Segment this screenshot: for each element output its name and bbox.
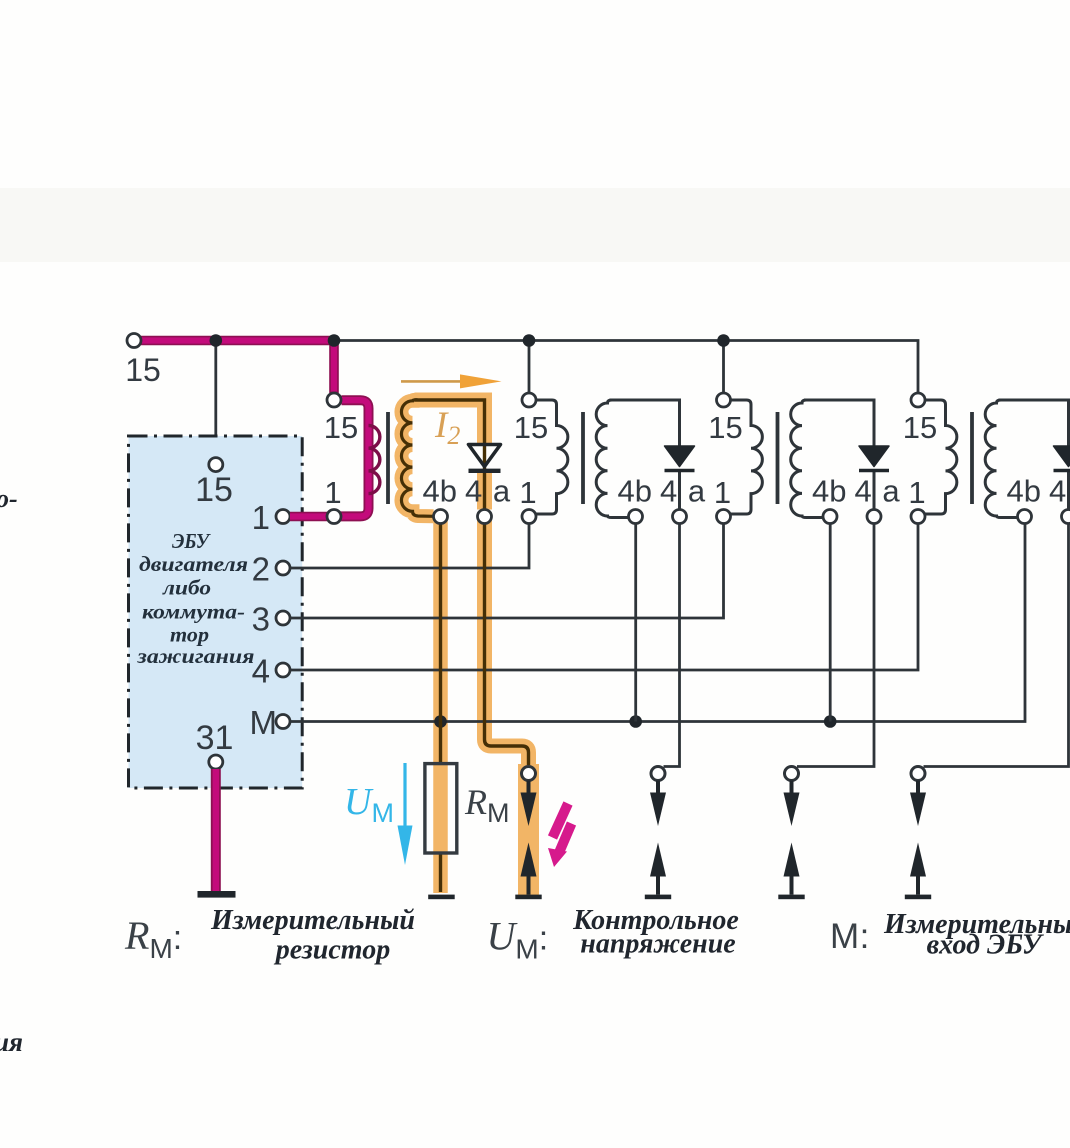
wire core: coil1 secondary loop: [415, 400, 485, 510]
coil T2 secondary winding: [596, 400, 628, 518]
node 15 (battery +) terminal: [127, 334, 141, 348]
spark gap 4 electrodes: [910, 781, 926, 895]
coil T4 terminal 4b: [1018, 510, 1032, 524]
svg-text:4b: 4b: [1007, 474, 1041, 509]
svg-text:4: 4: [854, 474, 871, 509]
wire: black supply bus to coil4: [334, 341, 918, 394]
wire: coil2 4a to spark gap 2: [664, 524, 680, 767]
junction on bus 1: [210, 334, 223, 347]
junction on bus 2: [328, 334, 341, 347]
diode of coil T3: [859, 446, 889, 471]
wire: coil4 4a to spark gap 4: [924, 524, 1069, 767]
svg-text:31: 31: [196, 719, 234, 757]
wire: pin4 to coil4 term1: [290, 524, 918, 671]
junction on M bus 2: [629, 715, 642, 728]
coil T4 core: [970, 412, 974, 504]
coil T3 secondary top rail: [804, 400, 874, 510]
svg-text:15: 15: [324, 410, 358, 445]
wire: coil1 primary winding arcs: [369, 426, 380, 494]
wire core: coil1 secondary winding: [401, 400, 433, 517]
diode of coil T4: [1054, 446, 1070, 471]
svg-text:либо: либо: [162, 576, 211, 600]
coil T2 primary winding: [534, 400, 568, 514]
spark gap 3 electrodes: [784, 781, 800, 895]
svg-text:4b: 4b: [618, 474, 652, 509]
svg-text:зажигания: зажигания: [136, 644, 254, 668]
coil T3 core: [776, 412, 780, 504]
diode of coil T1: [469, 445, 501, 471]
diode of coil T2: [665, 446, 695, 471]
ECU pin terminals 1,2,3,4,M: [276, 510, 290, 729]
svg-text:ЭБУ: ЭБУ: [172, 529, 211, 553]
wire core: 4b line above RM: [439, 524, 442, 763]
arrow UM (voltage): [398, 763, 413, 865]
coil T4 secondary top rail: [999, 400, 1069, 510]
wire glow: spark gap 1 column: [518, 764, 539, 896]
coil T2 terminal 4b: [629, 510, 643, 524]
svg-text:ия: ия: [0, 1027, 23, 1057]
wire glow: 4b measuring line through RM: [433, 517, 448, 894]
svg-text:напряжение: напряжение: [580, 929, 735, 960]
svg-text:коммута-: коммута-: [142, 600, 245, 624]
spark gap 2 terminal: [651, 767, 665, 781]
coil T1 terminal 15: [327, 393, 341, 407]
coil T4 primary winding: [923, 400, 957, 514]
caption texts: [210, 905, 1070, 966]
arrow I2 (secondary current): [401, 374, 502, 388]
svg-text:15: 15: [514, 410, 548, 445]
svg-text:4: 4: [1049, 474, 1066, 509]
wire: bus drop to coil2 term15: [528, 341, 531, 394]
ground bar of spark gap 4: [905, 895, 931, 900]
wire: M measuring bus: [290, 524, 1025, 722]
coil T1 terminal 4b: [434, 510, 448, 524]
coil T2 terminal 1: [522, 510, 536, 524]
spark gap 1 terminal: [522, 767, 536, 781]
coil T3 terminal 1: [717, 510, 731, 524]
coil T4 terminal 15: [911, 393, 925, 407]
wire: pin2 to coil2 term1: [290, 524, 529, 569]
wire: coil2 4b to M bus: [634, 524, 637, 722]
wire glow: I2 secondary loop of coil T1: [415, 400, 529, 766]
junction on M bus 1: [434, 715, 447, 728]
svg-text:Измерительный: Измерительный: [883, 909, 1070, 940]
coil T4 terminal 1: [911, 510, 925, 524]
ECU box dash-dot border: [129, 436, 303, 788]
wire: magenta coil1 primary highlight: [341, 400, 369, 516]
svg-text:1: 1: [324, 475, 341, 510]
coil T3 secondary winding: [791, 400, 823, 518]
spark gap 3 terminal: [785, 767, 799, 781]
coil T3 primary winding: [729, 400, 763, 514]
svg-text:a: a: [688, 474, 706, 509]
svg-text:резистор: резистор: [274, 935, 390, 966]
spark gap 4 terminal: [911, 767, 925, 781]
junction on M bus 3: [824, 715, 837, 728]
svg-text:M: M: [250, 704, 278, 741]
coil T2 terminal 4a: [673, 510, 687, 524]
svg-text:о-: о-: [0, 484, 18, 513]
svg-text:4b: 4b: [812, 474, 846, 509]
wire: magenta ground lead from pin31: [211, 769, 221, 891]
wire glow: coil1 secondary winding: [401, 400, 433, 517]
svg-text:двигателя: двигателя: [139, 552, 248, 576]
ground bar of spark gap 1: [515, 895, 541, 900]
wire: coil3 4a to spark gap 3: [797, 524, 874, 767]
svg-text:Измерительный: Измерительный: [210, 905, 415, 936]
svg-text:4: 4: [252, 653, 270, 690]
ECU box label text: [136, 529, 254, 668]
coil T1 terminal 4a: [478, 510, 492, 524]
svg-text:M:: M:: [830, 917, 870, 956]
ground bar for pin 31: [198, 891, 236, 898]
coil T2 core: [581, 412, 585, 504]
svg-text:15: 15: [195, 471, 233, 509]
coil T2 terminal 15: [522, 393, 536, 407]
svg-text:1: 1: [252, 499, 270, 536]
svg-text:1: 1: [519, 475, 536, 510]
ECU pin 31: [209, 755, 223, 769]
ECU pin 15: [209, 458, 223, 472]
spark gap 1 electrodes: [521, 781, 537, 895]
coil T3 terminal 15: [717, 393, 731, 407]
svg-text:15: 15: [903, 410, 937, 445]
svg-text:a: a: [493, 474, 511, 509]
svg-text:тор: тор: [170, 623, 209, 647]
coil T2 secondary top rail: [610, 400, 680, 510]
svg-text:3: 3: [252, 601, 270, 638]
coil T4 terminal 4a: [1062, 510, 1070, 524]
svg-text:15: 15: [125, 352, 161, 388]
ground bar of spark gap 2: [645, 895, 671, 900]
faint background band: [0, 188, 1070, 262]
junction on bus 4: [717, 334, 730, 347]
wire core: coil1 4a to spark1: [485, 524, 529, 766]
svg-text:2: 2: [252, 551, 270, 588]
ground bar of spark gap 3: [778, 895, 804, 900]
coil T3 terminal 4b: [823, 510, 837, 524]
svg-text:1: 1: [908, 475, 925, 510]
svg-text:4b: 4b: [423, 474, 457, 509]
svg-text:a: a: [882, 474, 900, 509]
svg-text:15: 15: [708, 410, 742, 445]
coil T1 terminal 1: [327, 510, 341, 524]
wire core: 4b line below RM: [439, 854, 442, 892]
ECU box fill: [129, 436, 303, 788]
ground bar below RM: [428, 895, 455, 900]
junction on bus 3: [523, 334, 536, 347]
svg-text:1: 1: [714, 475, 731, 510]
resistor RM: [425, 764, 457, 853]
wire: magenta pin1 to coil1 term1: [290, 512, 328, 522]
coil T1 core: [386, 412, 390, 504]
coil T4 secondary winding: [985, 400, 1017, 518]
coil T3 terminal 4a: [867, 510, 881, 524]
wire: coil3 4b to M bus: [829, 524, 832, 722]
wire: bus drop to ECU term15: [214, 341, 217, 458]
wire: magenta supply bus: [141, 338, 334, 394]
svg-text:4: 4: [660, 474, 677, 509]
svg-text:4: 4: [465, 474, 482, 509]
wire: bus drop to coil3 term15: [722, 341, 725, 394]
lightning bolt (spark): [548, 804, 572, 868]
wire: pin3 to coil3 term1: [290, 524, 724, 619]
spark gap 2 electrodes: [650, 781, 666, 895]
